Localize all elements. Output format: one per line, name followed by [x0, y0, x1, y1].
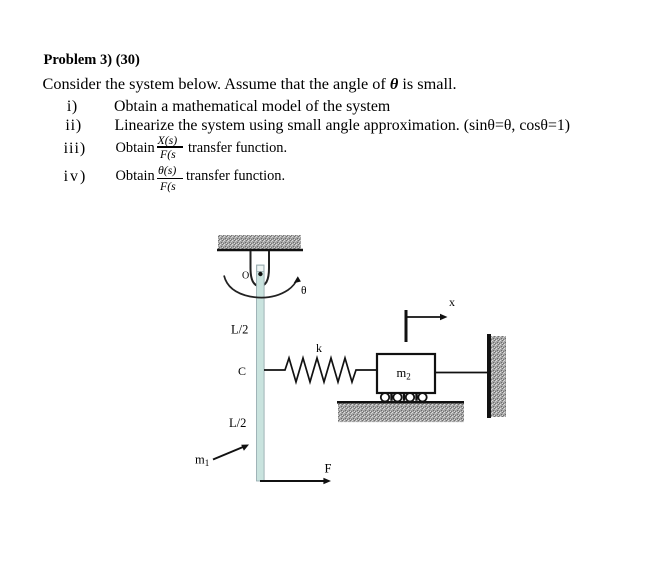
- ground hatch: [338, 404, 464, 423]
- roller bars: [390, 394, 417, 401]
- ceiling hatched block: [218, 235, 301, 249]
- x arrow: [406, 316, 442, 318]
- svg-text:C: C: [238, 364, 246, 378]
- title: [44, 53, 140, 68]
- item iv: [64, 169, 88, 185]
- svg-text:F: F: [325, 461, 332, 475]
- rod top square: [257, 265, 264, 271]
- x reference post: [405, 310, 408, 342]
- wall hatch: [491, 336, 506, 417]
- wall black edge: [487, 334, 491, 418]
- mass m2 box: [377, 354, 435, 393]
- svg-text:L/2: L/2: [231, 322, 248, 336]
- rollers: [381, 393, 427, 401]
- svg-text:L/2: L/2: [229, 416, 246, 430]
- svg-text:k: k: [316, 341, 322, 355]
- ceiling bottom line: [217, 249, 303, 252]
- paragraph: [43, 76, 457, 92]
- svg-text:θ: θ: [301, 285, 307, 297]
- svg-text:O: O: [242, 270, 249, 281]
- svg-text:m1: m1: [195, 453, 209, 469]
- item iii: [64, 141, 87, 157]
- rod (pendulum bar): [257, 265, 265, 481]
- spring k: [264, 358, 377, 382]
- ground line: [337, 401, 464, 404]
- item i: [67, 99, 78, 115]
- theta arc: [224, 276, 298, 298]
- svg-text:x: x: [449, 295, 455, 309]
- pivot bracket (clevis): [251, 251, 270, 286]
- m1 pointer arrow: [213, 447, 243, 460]
- item ii: [65, 118, 82, 134]
- force F arrow: [260, 480, 325, 482]
- arc arrowhead: [294, 276, 301, 283]
- pivot dot: [258, 272, 262, 276]
- link line mass to wall: [435, 372, 487, 374]
